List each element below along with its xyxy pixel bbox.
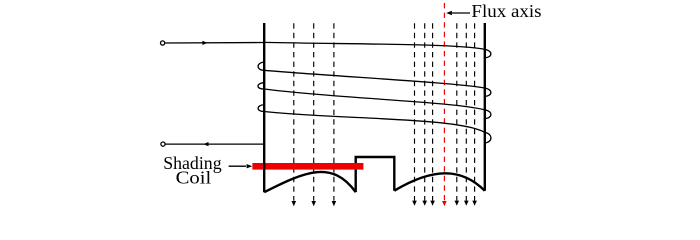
terminal wire bottom: [166, 143, 265, 145]
pole notch: [356, 157, 395, 192]
flux line F8: [464, 23, 469, 206]
svg-text:Coil: Coil: [176, 169, 212, 188]
core left edge: [263, 23, 265, 192]
winding turn 4 right loop: [485, 132, 491, 143]
current arrow in: [202, 41, 207, 45]
winding turn 4 left loop: [258, 105, 264, 112]
winding turn 1 right loop: [485, 49, 491, 58]
flux line F2: [311, 23, 316, 206]
flux line F9: [472, 23, 477, 206]
winding turn 2 left loop: [258, 62, 264, 70]
left pole face arc: [264, 172, 356, 192]
winding turn 4 front wire: [264, 112, 484, 133]
current arrow out: [203, 142, 208, 146]
terminal wire top: [165, 42, 264, 45]
winding turn 3 right loop: [485, 110, 491, 119]
winding turn 2 right loop: [485, 88, 491, 96]
winding turn 1 front wire: [264, 42, 484, 49]
right pole face arc: [394, 173, 485, 190]
label arrow to flux axis: [452, 12, 470, 14]
flux line F7: [455, 23, 460, 206]
flux line F5: [422, 23, 427, 206]
winding turn 3 left loop: [258, 83, 264, 89]
svg-text:Flux axis: Flux axis: [471, 2, 541, 21]
flux line F1: [292, 23, 297, 206]
winding turn 3 front wire: [264, 89, 485, 110]
terminal T2: [161, 142, 165, 146]
flux line F6: [430, 23, 435, 206]
label arrow to shading coil: [229, 165, 246, 167]
winding turn 2 front wire: [264, 70, 484, 88]
flux line F3: [332, 23, 337, 206]
flux axis line (red dashed): [442, 3, 447, 206]
core right edge: [484, 23, 486, 191]
terminal T1: [161, 41, 165, 45]
flux line F4: [412, 23, 417, 206]
shading coil bar (red): [252, 163, 363, 170]
